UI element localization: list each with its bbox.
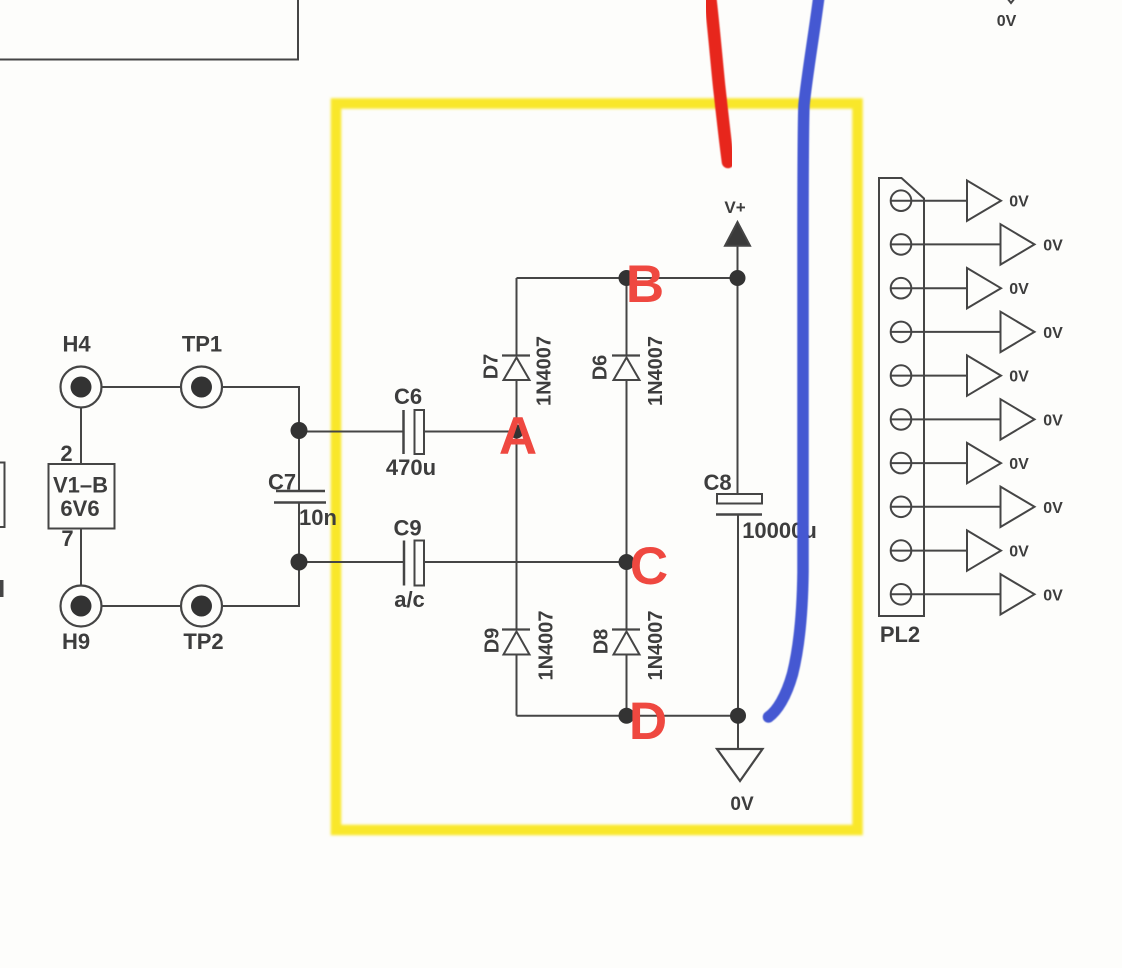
top-left frame box [0, 0, 298, 60]
terminal H9 [61, 586, 102, 627]
svg-text:0V: 0V [1009, 194, 1029, 211]
wire D to ground [737, 716, 739, 749]
node B rail [517, 277, 738, 279]
svg-text:C9: C9 [393, 516, 421, 541]
svg-text:10n: 10n [299, 505, 337, 530]
svg-text:TP2: TP2 [183, 629, 223, 654]
pin 2 arrow [1001, 224, 1035, 264]
pin 6 wire [891, 418, 1001, 420]
svg-text:0V: 0V [1043, 412, 1063, 429]
svg-text:D9: D9 [482, 628, 504, 654]
wire H4 to TP1 [102, 386, 182, 388]
pin 7 arrow [967, 443, 1001, 483]
red marker stroke [710, 0, 728, 162]
junction node D at C8 [730, 708, 746, 724]
junction node B at C8 [730, 270, 746, 286]
junction node at TP1 corner [291, 422, 308, 439]
wire C6 to node A [424, 431, 517, 433]
PL2 pins and 0V buffers [891, 0, 1035, 615]
top-right ground triangle tip [988, 0, 1034, 3]
pin 10 circle [891, 584, 912, 605]
svg-text:470u: 470u [386, 455, 436, 480]
pin 1 arrow [967, 181, 1001, 221]
svg-text:D: D [629, 692, 667, 751]
wire node to C6 [299, 431, 404, 433]
diode D6 [626, 278, 628, 356]
svg-text:V+: V+ [724, 198, 745, 217]
pin 2 circle [891, 234, 912, 255]
svg-text:0V: 0V [997, 13, 1017, 30]
pin 2 wire [891, 243, 1001, 245]
svg-text:a/c: a/c [394, 587, 425, 612]
svg-text:C6: C6 [394, 384, 422, 409]
capacitor C6 [402, 410, 405, 454]
blue marker stroke [769, 0, 820, 717]
svg-text:0V: 0V [1043, 587, 1063, 604]
capacitor C8 [717, 494, 762, 504]
svg-text:V1–B: V1–B [53, 473, 108, 498]
pin 4 wire [891, 331, 1001, 333]
pin 7 wire [891, 462, 967, 464]
node D rail [517, 715, 739, 717]
svg-text:H4: H4 [62, 332, 91, 357]
pin 3 arrow [967, 268, 1001, 308]
pin 3 wire [891, 287, 967, 289]
wire C9 to node C [424, 561, 627, 563]
svg-text:PL2: PL2 [880, 622, 920, 647]
pin 9 circle [891, 540, 912, 561]
terminal dot TP2 [191, 596, 212, 617]
V+ symbol [725, 222, 750, 246]
svg-text:C7: C7 [268, 470, 296, 495]
svg-text:TP1: TP1 [182, 332, 222, 357]
junction node at TP2 corner [291, 554, 308, 571]
svg-text:0V: 0V [1043, 237, 1063, 254]
svg-text:0V: 0V [730, 794, 754, 815]
pin 8 circle [891, 497, 912, 518]
pin 10 arrow [1001, 574, 1035, 614]
pin 10 wire [891, 593, 1001, 595]
svg-text:7: 7 [61, 526, 73, 551]
terminal dot TP1 [191, 377, 212, 398]
svg-text:1N4007: 1N4007 [536, 610, 558, 680]
pin 6 circle [891, 409, 912, 430]
pin 4 arrow [1001, 312, 1035, 352]
terminal TP1 [181, 367, 222, 408]
pin 9 wire [891, 550, 967, 552]
svg-text:0V: 0V [1009, 544, 1029, 561]
left edge wire stub [0, 580, 4, 597]
pin 4 circle [891, 322, 912, 343]
svg-text:H9: H9 [62, 629, 90, 654]
pin 5 wire [891, 375, 967, 377]
junction node A [510, 425, 524, 439]
wire node to C9 [299, 561, 404, 563]
svg-text:1N4007: 1N4007 [645, 336, 667, 406]
pin 7 circle [891, 453, 912, 474]
wire TP1 to corner [222, 387, 299, 432]
pin 6 arrow [1001, 399, 1035, 439]
diode D9 [502, 628, 530, 630]
valve V1-B box [49, 464, 115, 529]
svg-text:B: B [626, 255, 664, 314]
svg-text:1N4007: 1N4007 [534, 336, 556, 406]
highlighter yellow box [336, 104, 858, 831]
svg-text:0V: 0V [1009, 369, 1029, 386]
pin 3 circle [891, 278, 912, 299]
svg-text:C8: C8 [703, 470, 731, 495]
wire H4 to V1-B pin2 [80, 408, 82, 465]
svg-text:0V: 0V [1009, 456, 1029, 473]
diode D7 [516, 278, 518, 356]
svg-text:0V: 0V [1043, 500, 1063, 517]
wire B to C8 [737, 278, 739, 494]
junction node D at D8 [619, 708, 635, 724]
wire V1-B pin7 to H9 [80, 529, 82, 586]
svg-text:D8: D8 [591, 629, 613, 655]
terminal H4 [61, 367, 102, 408]
wire TP2 to corner [222, 562, 299, 606]
left partial component box [0, 463, 5, 528]
pin 1 wire [891, 200, 967, 202]
pin 9 arrow [967, 530, 1001, 570]
capacitor C9 [403, 541, 406, 586]
svg-text:6V6: 6V6 [60, 496, 99, 521]
junction node B at D6 [619, 270, 635, 286]
svg-text:1N4007: 1N4007 [645, 610, 667, 680]
svg-text:C: C [630, 537, 668, 596]
terminal TP2 [181, 586, 222, 627]
terminal dot H9 [71, 596, 92, 617]
ground 0V symbol [717, 749, 763, 781]
pin 5 arrow [967, 355, 1001, 395]
wire H9 to TP2 [102, 605, 182, 607]
connector PL2 body [879, 178, 924, 616]
pin 8 wire [891, 506, 1001, 508]
pin 5 circle [891, 365, 912, 386]
svg-text:0V: 0V [1043, 325, 1063, 342]
pin 1 circle [891, 190, 912, 211]
pin 8 arrow [1001, 487, 1035, 527]
junction node C [619, 554, 635, 570]
terminal dot H4 [71, 377, 92, 398]
capacitor C7 [298, 432, 300, 492]
svg-text:D6: D6 [590, 355, 612, 381]
svg-text:2: 2 [60, 441, 72, 466]
diode D8 [612, 628, 640, 630]
svg-text:A: A [499, 407, 537, 466]
svg-text:0V: 0V [1009, 281, 1029, 298]
svg-text:D7: D7 [481, 354, 503, 380]
